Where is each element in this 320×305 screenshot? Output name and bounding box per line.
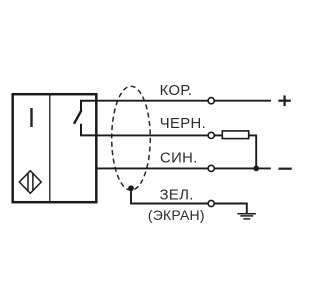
wire KOR segment right xyxy=(214,100,271,102)
wire SIN segment left xyxy=(98,167,209,169)
wire CHERN to resistor xyxy=(214,134,222,136)
inductive sensor symbol (diamond) xyxy=(19,171,41,194)
shield node dot xyxy=(128,185,134,191)
terminal circle SIN xyxy=(208,165,214,171)
ground symbol xyxy=(237,214,255,219)
wire KOR segment left xyxy=(98,100,209,102)
indicator I xyxy=(30,108,32,127)
minus terminal xyxy=(279,168,292,170)
terminal circle CHERN xyxy=(208,132,214,138)
svg-text:ЗЕЛ.: ЗЕЛ. xyxy=(160,188,194,204)
wire ZEL segment left xyxy=(130,203,208,205)
cable ellipse xyxy=(112,86,151,190)
terminal circle KOR xyxy=(208,98,214,104)
resistor xyxy=(222,131,248,139)
wire ZEL vertical from shield node xyxy=(130,188,132,203)
plus terminal xyxy=(278,95,290,106)
wire SIN segment right xyxy=(214,167,270,169)
svg-text:ЧЕРН.: ЧЕРН. xyxy=(160,116,206,132)
wire resistor to junction xyxy=(249,135,257,168)
sensor body divider xyxy=(49,93,51,203)
svg-text:КОР.: КОР. xyxy=(160,83,193,99)
sensor body outline xyxy=(13,94,97,202)
junction node xyxy=(253,166,259,172)
svg-text:СИН.: СИН. xyxy=(160,150,198,166)
svg-text:(ЭКРАН): (ЭКРАН) xyxy=(148,207,205,223)
wire CHERN segment left xyxy=(98,134,209,136)
switch contact xyxy=(74,101,97,136)
terminal circle ZEL xyxy=(208,200,214,206)
wire ZEL segment right to ground xyxy=(214,204,246,214)
